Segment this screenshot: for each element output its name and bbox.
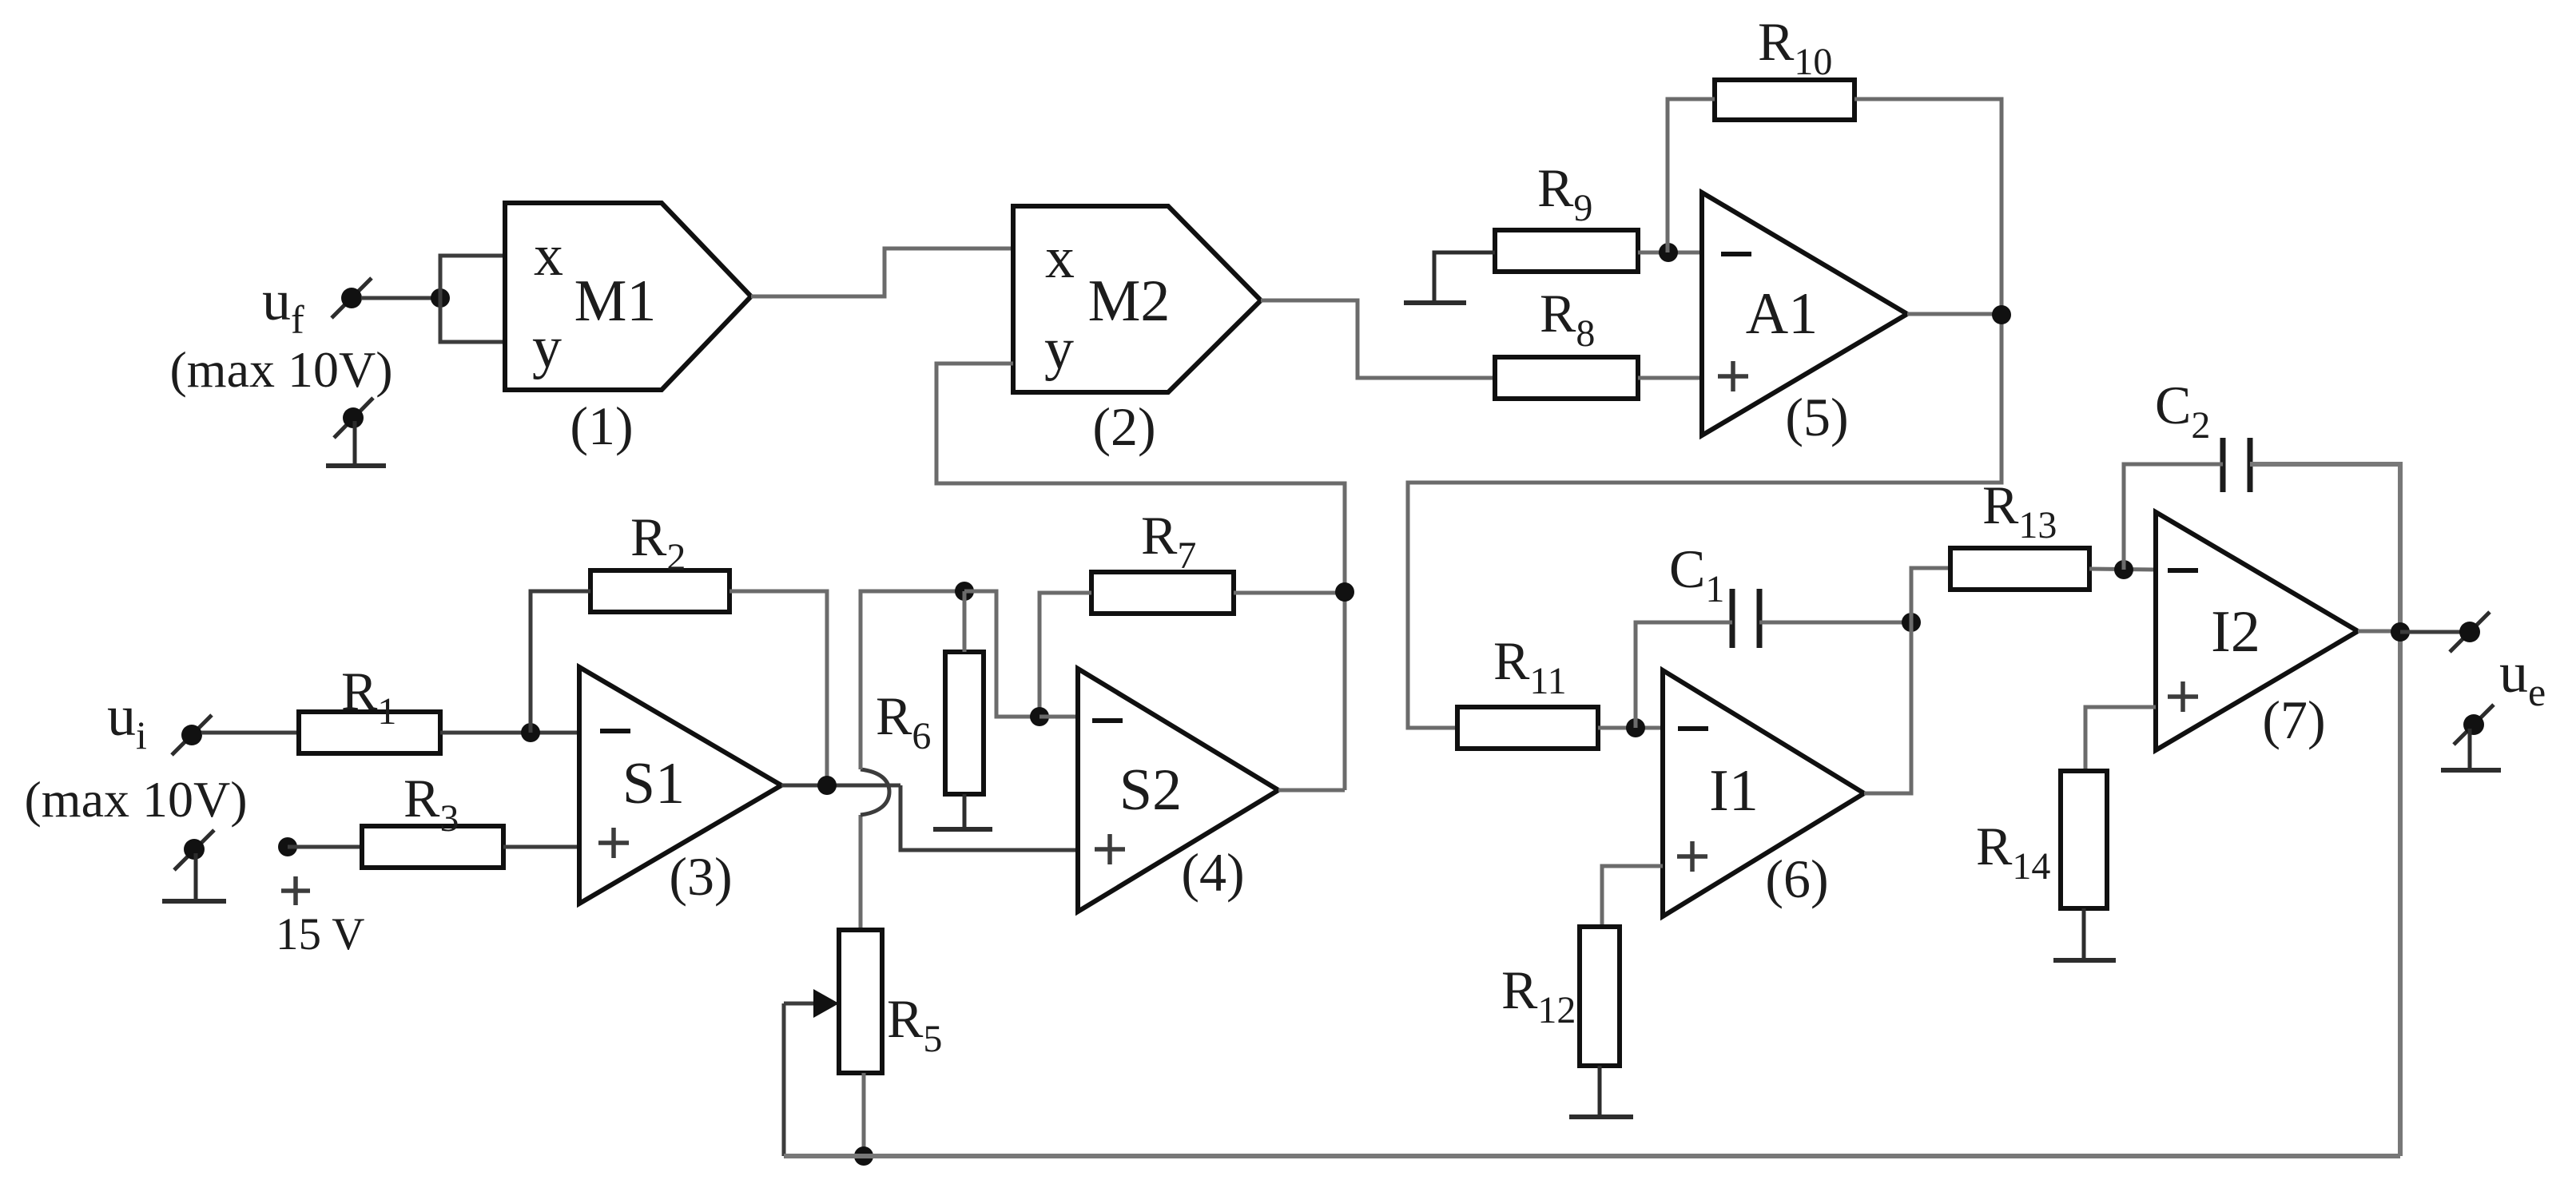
ground R14 bbox=[2053, 908, 2116, 960]
ground u_e bbox=[2441, 705, 2501, 770]
svg-text:(5): (5) bbox=[1785, 387, 1848, 447]
wire S2 output bbox=[1278, 789, 1345, 793]
capacitor C1 bbox=[1732, 589, 1759, 648]
minus I2 bbox=[2168, 568, 2198, 573]
svg-text:(2): (2) bbox=[1092, 396, 1155, 457]
node S1 output bbox=[817, 776, 837, 795]
potentiometer R5 bbox=[839, 930, 882, 1073]
resistor R6 bbox=[945, 652, 984, 794]
svg-text:M2: M2 bbox=[1088, 268, 1171, 334]
wire S2 output feedback to M2 y bbox=[936, 364, 1345, 790]
wire R7 left leg to S2 inverting bbox=[1040, 593, 1091, 717]
svg-text:(7): (7) bbox=[2262, 689, 2325, 750]
svg-text:x: x bbox=[1045, 225, 1075, 291]
svg-text:I1: I1 bbox=[1709, 758, 1759, 824]
node S2 inverting bbox=[1030, 707, 1049, 726]
svg-text:(1): (1) bbox=[570, 395, 633, 456]
wire R10 left leg bbox=[1668, 99, 1715, 252]
wire bracket to M1 inputs bbox=[440, 256, 505, 342]
resistor R1 bbox=[299, 712, 440, 753]
wire R5 bottom bbox=[862, 1073, 866, 1156]
wire R7 right leg bbox=[1234, 591, 1345, 595]
wire I2 output bbox=[2358, 630, 2400, 634]
svg-text:S1: S1 bbox=[622, 751, 685, 817]
node uf junction bbox=[431, 288, 450, 308]
wire I1 output leg bbox=[1864, 568, 1950, 793]
ground R9 bbox=[1404, 300, 1466, 305]
wire S1 output to S2 + bbox=[900, 785, 1078, 850]
wire S1 output bbox=[781, 784, 900, 788]
resistor R3 bbox=[362, 826, 503, 868]
wire R6 top stub bbox=[963, 591, 967, 652]
op-amp S2 bbox=[1078, 669, 1278, 912]
node A1 output bbox=[1992, 305, 2011, 324]
resistor R2 bbox=[590, 570, 729, 612]
wire M2 output to R8 bbox=[1261, 300, 1495, 378]
wire C2 right leg down right bus bbox=[2250, 464, 2400, 1156]
wire R10 right leg down to A1 output bbox=[1408, 99, 2002, 728]
wire R1 right to S1 inverting bbox=[440, 731, 579, 735]
resistor R10 bbox=[1715, 80, 1854, 120]
terminal u_i bbox=[172, 715, 212, 755]
plus I2 bbox=[2168, 681, 2198, 712]
wire R9 right to A1 inverting input bbox=[1638, 251, 1702, 255]
wire R11 right to I1 inverting bbox=[1598, 726, 1663, 730]
svg-text:(4): (4) bbox=[1181, 842, 1244, 903]
svg-text:(3): (3) bbox=[669, 846, 732, 907]
svg-text:y: y bbox=[1044, 316, 1074, 382]
wire S2 inverting stub bbox=[1040, 715, 1078, 719]
terminal u_f bbox=[332, 278, 372, 318]
plus 15V bbox=[281, 876, 310, 905]
wire I1 + input bbox=[1602, 866, 1663, 927]
node I1 output top bbox=[1902, 613, 1921, 632]
resistor R9 bbox=[1495, 230, 1638, 272]
wiper arrow R5 bbox=[784, 989, 839, 1156]
resistor R13 bbox=[1950, 548, 2089, 590]
wire R3 right to S1 + bbox=[503, 845, 579, 849]
minus S1 bbox=[600, 729, 630, 733]
wire R2 right leg bbox=[729, 591, 827, 785]
wire R5 link upper bbox=[861, 591, 964, 769]
svg-text:(6): (6) bbox=[1765, 848, 1828, 909]
plus S1 bbox=[598, 828, 629, 858]
op-amp I1 bbox=[1663, 670, 1864, 916]
multiplier M2 bbox=[1013, 206, 1261, 392]
op-amp I2 bbox=[2156, 512, 2358, 750]
ground uf bbox=[326, 398, 386, 466]
minus S2 bbox=[1092, 718, 1123, 723]
node I1 inverting bbox=[1626, 718, 1645, 737]
wire C1 right leg bbox=[1759, 621, 1911, 625]
node R6 top bbox=[955, 582, 974, 601]
plus I1 bbox=[1677, 841, 1707, 872]
wire I2 + input bbox=[2085, 707, 2156, 771]
svg-text:S2: S2 bbox=[1119, 757, 1182, 823]
wire uf to bracket bbox=[361, 296, 440, 300]
resistor R8 bbox=[1495, 357, 1638, 399]
resistor R11 bbox=[1457, 707, 1598, 749]
wire R13 right to I2 inverting bbox=[2089, 569, 2156, 570]
wire C1 left leg bbox=[1636, 622, 1732, 728]
svg-text:(max 10V): (max 10V) bbox=[24, 771, 247, 828]
wire A1 output bbox=[1907, 312, 2002, 316]
svg-text:I2: I2 bbox=[2211, 599, 2260, 665]
node R5 bottom bbox=[854, 1146, 873, 1166]
svg-text:A1: A1 bbox=[1746, 281, 1818, 347]
wire R6 node jog to S2 inverting bbox=[964, 591, 1040, 717]
svg-text:M1: M1 bbox=[574, 268, 657, 334]
op-amp S1 bbox=[579, 667, 781, 904]
ground R6 bbox=[933, 794, 992, 829]
minus A1 bbox=[1721, 252, 1751, 256]
capacitor C2 bbox=[2223, 438, 2250, 492]
node I2 inverting bbox=[2114, 560, 2133, 579]
wire u_i to R1 bbox=[201, 731, 299, 735]
wire bottom bus bbox=[784, 1154, 2400, 1158]
svg-text:x: x bbox=[534, 223, 563, 288]
wire I2 output to terminal bbox=[2400, 630, 2461, 634]
svg-text:y: y bbox=[532, 315, 562, 380]
plus S2 bbox=[1095, 834, 1125, 864]
terminal u_e bbox=[2450, 612, 2490, 652]
node R7 right bbox=[1335, 582, 1354, 602]
plus A1 bbox=[1718, 361, 1748, 391]
wire R2 left leg bbox=[531, 591, 590, 733]
node S1 inverting bbox=[521, 723, 540, 742]
op-amp A1 bbox=[1702, 193, 1907, 435]
multiplier M1 bbox=[505, 203, 751, 390]
svg-text:15 V: 15 V bbox=[276, 909, 364, 960]
wire R5 top to R6 node bbox=[859, 815, 863, 930]
resistor R7 bbox=[1091, 572, 1234, 614]
wire M1 output to M2 x bbox=[751, 248, 1013, 296]
wire 15V to R3 bbox=[288, 845, 362, 849]
node A1 inverting bbox=[1659, 243, 1678, 262]
wire hop over S1 output bbox=[861, 769, 889, 815]
wire R9 left to ground bbox=[1434, 252, 1495, 301]
terminal 15V bbox=[278, 837, 297, 856]
minus I1 bbox=[1678, 726, 1708, 731]
resistor R12 bbox=[1580, 927, 1620, 1066]
svg-text:(max 10V): (max 10V) bbox=[169, 341, 392, 398]
wire R8 right to A1 + bbox=[1638, 376, 1702, 380]
ground u_i bbox=[162, 830, 226, 901]
node I2 output bbox=[2391, 622, 2410, 642]
wire C2 left leg bbox=[2124, 464, 2223, 570]
ground R12 bbox=[1569, 1066, 1633, 1117]
resistor R14 bbox=[2061, 771, 2107, 908]
